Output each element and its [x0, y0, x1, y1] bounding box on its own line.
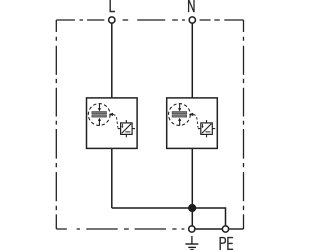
- SPD F1 disconnector inner arrow: [121, 124, 123, 128]
- junction dot: [188, 204, 196, 212]
- SPD F1 dashed linkage curve: [113, 115, 118, 128]
- wire bottom horizontal to junction: [112, 207, 192, 209]
- SPD F1 spark gap dashed circle: [88, 104, 110, 126]
- SPD F2 spark gap electrodes: [172, 112, 187, 118]
- SPD F1 disconnector box: [118, 120, 135, 137]
- SPD F1 side arrow: [109, 113, 114, 116]
- enclosure border bottom (dash-dot): [56, 228, 184, 230]
- ground: [185, 236, 198, 250]
- label N: [189, 0, 194, 12]
- SPD unit F2 enclosure box: [167, 98, 218, 148]
- terminal N: [189, 17, 195, 23]
- SPD F2 side arrow: [189, 113, 194, 116]
- SPD F1 top arrow: [98, 104, 101, 112]
- terminal L: [109, 17, 115, 23]
- SPD F1 bottom arrow: [98, 118, 101, 126]
- wire SPD1 bottom lead: [111, 148, 113, 208]
- enclosure border top (dash-dot): [56, 19, 243, 21]
- enclosure border left (dash-dot): [55, 20, 57, 229]
- SPD F2 disconnector box: [198, 120, 215, 137]
- SPD F2 bottom arrow: [178, 118, 181, 126]
- SPD F1 spark gap electrodes: [92, 112, 107, 118]
- enclosure border right (dash-dot): [243, 20, 245, 229]
- SPD F2 top arrow: [178, 104, 181, 112]
- terminal earth: [189, 226, 195, 232]
- SPD F2 spark gap dashed circle: [169, 104, 191, 126]
- label L: [110, 0, 115, 12]
- wire PE to border: [229, 228, 244, 230]
- wire L lead: [111, 23, 113, 98]
- wire N lead: [191, 23, 193, 98]
- wire SPD2 bottom lead to earth terminal: [191, 148, 193, 225]
- wire branch to PE terminal: [192, 208, 225, 226]
- terminal PE: [222, 226, 228, 232]
- wire PE busbar segment: [195, 228, 222, 230]
- label PE: [220, 238, 233, 250]
- SPD unit F1 enclosure box: [87, 98, 138, 148]
- SPD F2 disconnector inner arrow: [202, 124, 204, 128]
- SPD F2 dashed linkage curve: [193, 115, 198, 128]
